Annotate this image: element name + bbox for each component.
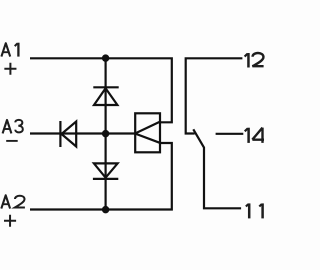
terminal label A1 bbox=[1, 43, 18, 57]
polarity plus at A1 bbox=[4, 63, 16, 75]
polarity plus at A2 bbox=[4, 215, 16, 227]
terminal label 12 bbox=[245, 53, 264, 68]
junction node A3 bbox=[102, 130, 110, 138]
diode D2 (vertical, cathode down) bbox=[93, 163, 118, 179]
terminal label A3 bbox=[3, 120, 23, 134]
wire terminal 12 to fixed NC contact bbox=[185, 58, 243, 133]
terminal label A2 bbox=[1, 195, 25, 208]
switch movable arm and wire to terminal 11 bbox=[193, 129, 241, 208]
wire terminal 14 open contact stub bbox=[216, 133, 244, 135]
junction node A2/D2 bbox=[102, 206, 110, 214]
wire A3 terminal to coil left terminal bbox=[30, 132, 135, 134]
diode D3 (horizontal on A3 line, cathode left) bbox=[60, 121, 76, 147]
junction node A1/D1 bbox=[102, 54, 110, 62]
terminal label 11 bbox=[246, 203, 263, 218]
polarity minus at A3 bbox=[6, 140, 18, 142]
terminal label 14 bbox=[245, 128, 264, 143]
wire A1 terminal to coil upper terminal bbox=[30, 58, 172, 122]
relay coil K1 bbox=[135, 113, 160, 152]
diode D1 (vertical, cathode up, across coil) bbox=[93, 87, 118, 105]
wire vertical bus through D1, A3 node, D2 bbox=[104, 58, 106, 209]
wire coil lower terminal to A2 terminal bbox=[30, 143, 172, 210]
